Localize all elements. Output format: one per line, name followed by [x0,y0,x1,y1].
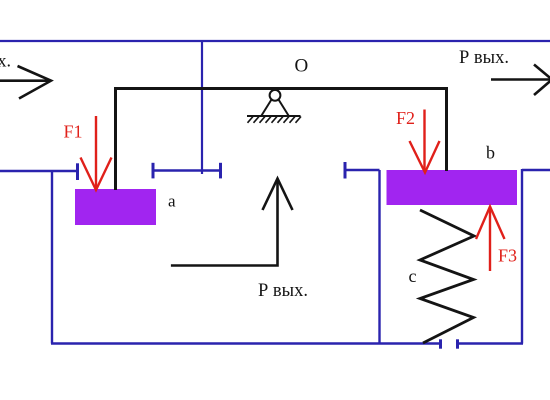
wire: right chamber leg [521,169,523,344]
force arrow F1 [81,116,112,190]
force arrow F2 [410,110,440,173]
lever beam with down arms [116,89,447,191]
svg-text:F1: F1 [64,122,83,142]
flapper plate b [387,170,518,205]
output arrow P out top [491,65,550,96]
svg-text:O: O [295,56,309,77]
nozzle B tick and output run-down wire [345,162,380,344]
pivot circle O [270,90,281,101]
spring c [420,210,474,343]
flapper plate a [75,189,156,225]
wire: right output port [522,169,550,171]
wire: left input port with tick [0,163,78,180]
nozzle A bar with end ticks [153,163,221,179]
wire: left chamber down leg [51,171,53,344]
pivot triangle and ground [247,100,301,123]
svg-text:F2: F2 [396,108,415,128]
wire: supply header line [0,40,550,42]
svg-text:c: c [409,266,417,286]
wire: supply branch down to nozzle a [201,41,203,174]
input arrow P in [0,66,51,99]
wire: bottom line right segment with tick [458,339,524,348]
svg-text:Р вх.: Р вх. [0,51,11,71]
svg-text:Р вых.: Р вых. [258,281,308,301]
svg-text:Р вых.: Р вых. [459,48,509,68]
svg-text:b: b [486,143,495,163]
force arrow F3 [476,207,505,272]
svg-text:a: a [168,192,176,211]
output sense arrow up [171,179,293,266]
wire: bottom line left segment with tick [51,339,441,348]
svg-text:F3: F3 [498,246,517,266]
